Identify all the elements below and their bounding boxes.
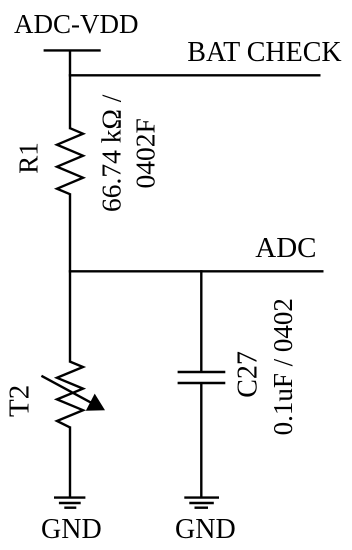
- svg-text:BAT CHECK: BAT CHECK: [187, 37, 341, 68]
- svg-text:66.74 kΩ /: 66.74 kΩ /: [96, 94, 127, 212]
- svg-text:R1: R1: [14, 142, 44, 174]
- svg-text:GND: GND: [175, 514, 236, 545]
- svg-text:0.1uF / 0402: 0.1uF / 0402: [268, 298, 298, 435]
- svg-text:C27: C27: [232, 351, 263, 398]
- svg-text:T2: T2: [3, 385, 35, 417]
- svg-text:GND: GND: [41, 514, 102, 545]
- svg-text:ADC-VDD: ADC-VDD: [14, 9, 139, 39]
- svg-text:0402F: 0402F: [130, 118, 161, 188]
- svg-text:ADC: ADC: [255, 232, 316, 264]
